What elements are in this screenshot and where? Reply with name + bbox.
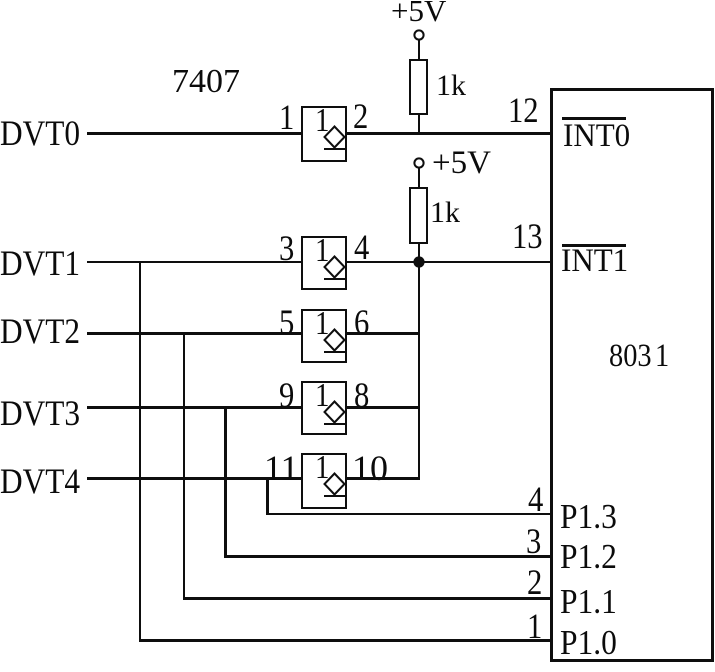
- wire R1 to DVT0 line: [418, 114, 421, 134]
- pin 4 label: [354, 229, 369, 265]
- label +5V (R1 supply): [391, 0, 446, 26]
- pin 1 label (P1.0): [527, 608, 542, 644]
- wire to P1.1: [183, 597, 551, 600]
- port INT1 label: [562, 244, 626, 247]
- wire DVT2 branch down: [183, 332, 186, 600]
- pin 3 label: [279, 230, 294, 266]
- wire DVT4 output: [345, 477, 420, 480]
- wire DVT3 output: [345, 406, 420, 409]
- junction dot: [412, 255, 426, 269]
- node DVT2: [0, 313, 80, 349]
- buffer U1E: [301, 453, 347, 509]
- wire DVT0 input: [87, 132, 303, 135]
- pin 4 label (P1.3): [528, 481, 543, 517]
- buffer U1C: [301, 309, 347, 363]
- wire DVT1 branch down: [139, 261, 142, 642]
- wire DVT1 output to INT1: [345, 261, 551, 264]
- label 1k (R2): [430, 198, 460, 228]
- pin 5 label: [279, 304, 294, 340]
- port P1.0 label: [560, 625, 617, 660]
- IC 8031: [550, 88, 714, 662]
- pin 12 label: [508, 92, 539, 128]
- pin 11 label: [264, 450, 299, 486]
- pin 2 label: [353, 98, 368, 134]
- node DVT1: [0, 245, 80, 281]
- wire +5V to R2: [418, 168, 421, 187]
- pin 8 label: [354, 377, 369, 413]
- resistor R1: [409, 59, 428, 115]
- node DVT3: [0, 395, 80, 431]
- wire DVT0 output to INT0: [345, 132, 551, 135]
- +5V terminal 1: [413, 29, 425, 41]
- node DVT0: [0, 115, 80, 151]
- wire DVT3 branch down: [224, 406, 227, 558]
- port INT0 label: [562, 117, 626, 120]
- wire to P1.3: [266, 513, 551, 516]
- wire to P1.0: [139, 639, 551, 642]
- wire +5V to R1: [418, 40, 421, 59]
- wire DVT2 output: [345, 332, 420, 335]
- pin 1 label: [279, 99, 294, 135]
- port P1.1 label: [560, 584, 617, 619]
- pin 10 label: [352, 450, 388, 486]
- resistor R2: [409, 187, 428, 244]
- label 7407: [172, 65, 240, 99]
- port P1.3 label: [560, 499, 617, 534]
- wire DVT4 branch down: [266, 477, 269, 515]
- pin 2 label (P1.1): [527, 564, 542, 600]
- label +5V (R2 supply): [432, 147, 491, 180]
- wire DVT3 input: [87, 406, 303, 409]
- wire to P1.2: [224, 555, 551, 558]
- pin 9 label: [279, 377, 294, 413]
- label 1k (R1): [436, 71, 466, 101]
- +5V terminal 2: [413, 157, 425, 169]
- pin 13 label: [512, 218, 543, 254]
- pin 3 label (P1.2): [526, 523, 541, 559]
- wire DVT2 input: [87, 332, 303, 335]
- port P1.2 label: [560, 539, 617, 574]
- buffer U1B: [301, 236, 347, 290]
- buffer U1A: [301, 106, 347, 162]
- node DVT4: [0, 463, 80, 499]
- buffer U1D: [301, 381, 347, 435]
- wire DVT4 input: [87, 477, 303, 480]
- pin 6 label: [354, 304, 369, 340]
- wire DVT1 input: [87, 261, 303, 264]
- wire R2 down through junction to pin10 row: [418, 243, 421, 479]
